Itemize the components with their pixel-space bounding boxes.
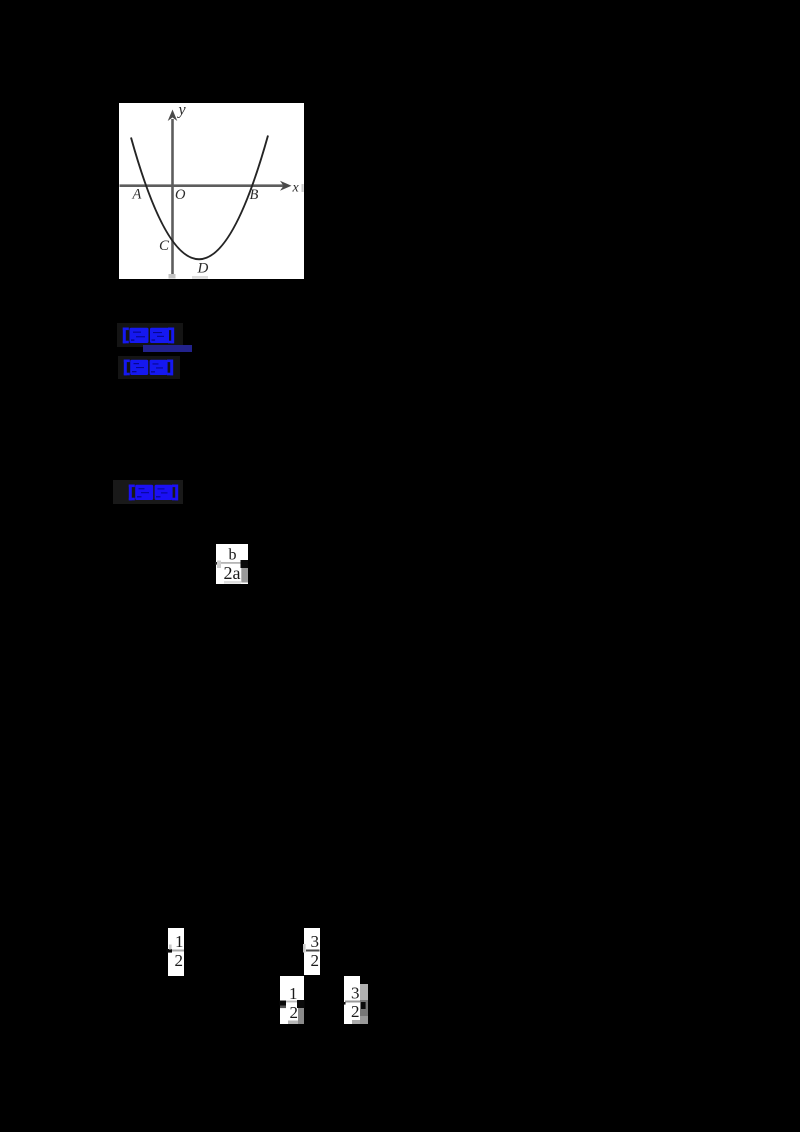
fraction bar	[220, 562, 242, 564]
parabola curve	[131, 136, 268, 260]
svg-text:2: 2	[311, 951, 320, 970]
left black dot	[344, 1002, 346, 1005]
gray column right	[298, 1008, 304, 1024]
dark gray block left lower	[280, 1006, 286, 1009]
equation image 3/2 (second)	[303, 928, 321, 980]
y-axis bottom stub	[169, 274, 176, 279]
left gray square	[217, 561, 221, 569]
y-axis arrowhead	[168, 110, 178, 122]
bottom gray strip	[352, 1020, 360, 1024]
svg-text:2: 2	[175, 951, 184, 970]
equation image 3/2 (fourth)	[343, 976, 369, 1029]
left gray nub	[303, 944, 306, 953]
svg-text:2: 2	[351, 1002, 360, 1021]
gray column right	[360, 984, 368, 1000]
x-axis	[120, 184, 287, 187]
graph figure: parabola on axes	[119, 103, 304, 284]
strip under D	[192, 276, 208, 279]
navy link bar	[143, 345, 192, 352]
x-axis arrowhead	[280, 181, 292, 191]
svg-text:1: 1	[289, 984, 298, 1003]
minus notch	[167, 949, 173, 953]
svg-text:D: D	[197, 261, 209, 277]
right gray column	[241, 568, 248, 583]
svg-text:y: y	[177, 103, 187, 119]
svg-text:2a: 2a	[224, 563, 241, 583]
equation image -b/2a	[215, 543, 249, 590]
svg-text:A: A	[132, 187, 142, 203]
svg-text:B: B	[250, 187, 259, 203]
bottom light strip	[224, 581, 241, 584]
svg-text:3: 3	[311, 932, 320, 951]
black bar segment right	[241, 560, 249, 568]
white plot background	[119, 103, 304, 279]
cursor mark after x	[302, 184, 304, 192]
fraction bar	[286, 1001, 297, 1003]
black blob right	[361, 1002, 366, 1009]
fraction bar	[345, 1001, 360, 1003]
svg-text:1: 1	[175, 932, 184, 951]
left minus dot	[215, 562, 217, 565]
blue heading kaodian	[117, 323, 183, 347]
equation image =-1/2 (third)	[279, 976, 305, 1029]
svg-text:O: O	[175, 187, 186, 203]
svg-text:C: C	[159, 238, 170, 254]
black block left	[280, 1001, 287, 1006]
fraction bar	[306, 950, 320, 952]
gray mark above bar	[169, 945, 172, 950]
svg-text:x: x	[292, 181, 300, 196]
blue heading jieda	[113, 480, 183, 504]
y-axis	[171, 119, 174, 276]
bottom light strip	[288, 1021, 298, 1025]
fraction bar	[172, 950, 185, 952]
equation image -1/2 (first)	[166, 928, 185, 981]
blue heading fenxi	[118, 356, 180, 379]
svg-text:2: 2	[290, 1003, 299, 1022]
svg-text:b: b	[229, 547, 237, 564]
svg-text:3: 3	[351, 984, 360, 1003]
black block right	[297, 1000, 305, 1008]
